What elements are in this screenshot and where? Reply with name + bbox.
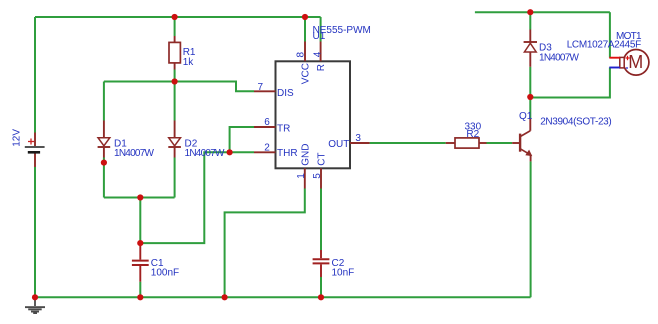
wire C1 bottom [139, 282, 141, 298]
svg-text:TR: TR [277, 123, 290, 134]
svg-text:2: 2 [264, 142, 270, 153]
wire top-right rail dangling [475, 11, 610, 13]
wire pin 4 drop [320, 17, 322, 42]
svg-text:3: 3 [355, 133, 361, 144]
svg-text:1k: 1k [183, 57, 195, 68]
op-amp U1 NE555 body [276, 61, 351, 168]
motor plus sign [625, 56, 629, 60]
wire CT pin to C2 [320, 189, 322, 251]
wire rail to motor plus [609, 12, 611, 58]
svg-text:1N4007W: 1N4007W [114, 148, 155, 159]
pin 4 R [320, 42, 322, 62]
svg-text:R: R [316, 64, 327, 71]
svg-text:GND: GND [300, 144, 311, 166]
junction ground [32, 294, 38, 300]
svg-text:R2: R2 [466, 129, 479, 140]
wire C2 bottom [320, 277, 322, 297]
motor minus sign [626, 67, 628, 69]
wire TR link [230, 127, 254, 152]
svg-text:THR: THR [277, 148, 298, 159]
pin 3 OUT [350, 142, 370, 144]
svg-text:LCM1027A2445F: LCM1027A2445F [567, 39, 642, 50]
wire D2 bottom [174, 158, 176, 198]
battery plus sign [28, 139, 34, 145]
capacitor C1 [132, 243, 149, 282]
svg-text:Q1: Q1 [519, 111, 533, 122]
wire C1 column [139, 198, 141, 244]
wire D1 bottom [103, 158, 105, 198]
wire bottom ground rail [35, 296, 531, 298]
battery BT1 12V [34, 133, 36, 168]
wire emitter to ground rail [530, 161, 532, 297]
svg-text:8: 8 [296, 52, 307, 58]
svg-text:10nF: 10nF [332, 268, 355, 279]
wire R1 column bottom [174, 70, 176, 82]
junction D3 top [527, 9, 533, 15]
wire D3 bottom to collector node [529, 67, 531, 119]
wire THR link [230, 151, 254, 153]
transistor Q1 [512, 118, 532, 161]
wire D2 top [174, 82, 176, 121]
wire R2 to Q1 base [487, 142, 513, 144]
pin 1 GND [304, 168, 306, 188]
junction C1 bottom [137, 294, 143, 300]
svg-text:1N4007W: 1N4007W [539, 52, 580, 63]
diode D1 [98, 121, 111, 158]
pin 5 CT [320, 168, 322, 188]
wire VCC drop to pin 8 [304, 17, 306, 42]
junction GND path bottom [222, 294, 228, 300]
svg-text:5: 5 [312, 173, 323, 179]
diode D2 [168, 121, 181, 158]
wire horizontal D1-D2 join [104, 197, 175, 199]
wire battery column bottom [34, 167, 36, 297]
wire D1 top [103, 82, 105, 121]
wire C1 to THR loop [140, 152, 229, 243]
pin 2 THR [254, 151, 276, 153]
wire horizontal D1-D2-DIS [104, 82, 254, 92]
diode D3 [524, 30, 537, 67]
junction D1 bottom [101, 160, 107, 166]
junction R1 bottom [172, 78, 178, 84]
wire OUT to R2 [370, 142, 446, 144]
junction TR THR [227, 149, 233, 155]
svg-text:100nF: 100nF [151, 268, 179, 279]
junction C2 bottom [318, 294, 324, 300]
junction C1 top [137, 240, 143, 246]
svg-text:VCC: VCC [300, 63, 311, 84]
wire top-left rail [35, 16, 321, 18]
wire motor minus return [530, 68, 610, 98]
pin 8 VCC [304, 42, 306, 62]
motor MOT1 [609, 50, 649, 76]
svg-text:2N3904(SOT-23): 2N3904(SOT-23) [540, 116, 612, 127]
resistor R1 [169, 36, 180, 70]
resistor R2 [446, 138, 487, 148]
svg-text:6: 6 [264, 117, 270, 128]
svg-text:DIS: DIS [277, 88, 294, 99]
svg-text:12V: 12V [12, 129, 23, 147]
svg-text:7: 7 [258, 82, 264, 93]
svg-text:1N4007W: 1N4007W [185, 148, 226, 159]
wire GND pin path [225, 189, 305, 298]
capacitor C2 [313, 250, 330, 277]
junction VCC [302, 14, 308, 20]
svg-text:U1: U1 [313, 31, 326, 42]
svg-text:M: M [628, 52, 643, 72]
wire R1 column top [174, 17, 176, 36]
svg-text:4: 4 [313, 51, 324, 57]
svg-text:CT: CT [317, 152, 328, 165]
junction D1 D2 C1 [137, 194, 143, 200]
wire battery column top [34, 17, 36, 133]
pin 7 DIS [254, 90, 276, 92]
pin 6 TR [254, 126, 276, 128]
ground [25, 297, 45, 314]
svg-text:1: 1 [296, 173, 307, 179]
junction R1 top [172, 14, 178, 20]
svg-text:OUT: OUT [328, 139, 349, 150]
junction collector node [527, 94, 533, 100]
wire D3 top [529, 12, 531, 29]
